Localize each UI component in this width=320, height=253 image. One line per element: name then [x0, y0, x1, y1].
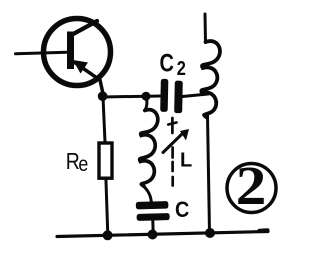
wire tank coil bottom to ground rail — [208, 116, 210, 233]
capacitor C — [136, 201, 170, 221]
node rail-Re — [103, 230, 113, 240]
label C2 — [160, 49, 186, 79]
label Re — [66, 147, 89, 176]
resistor Re — [99, 143, 112, 178]
wire C2 to tank coil tap — [183, 94, 209, 97]
wire emitter node to C2 — [102, 96, 161, 97]
inductor L2 tank coil top lead — [204, 14, 208, 43]
wire C to ground rail — [151, 221, 154, 234]
svg-text:2: 2 — [236, 155, 267, 216]
svg-text:e: e — [78, 153, 88, 177]
transistor Q1 — [16, 19, 111, 96]
wire L coil bottom to C — [144, 186, 152, 202]
node B L-branch junction — [142, 92, 151, 101]
ground rail — [57, 232, 268, 237]
wire node B down to L — [145, 97, 147, 111]
inductor L adjuster arrow — [163, 133, 184, 153]
inductor L2 tank coil — [201, 41, 220, 117]
node rail-tank — [205, 228, 215, 238]
svg-text:C: C — [160, 49, 174, 77]
inductor L coil — [140, 110, 158, 187]
capacitor C2 — [160, 79, 183, 113]
svg-text:C: C — [175, 198, 189, 222]
node rail-C — [148, 230, 158, 240]
node A emitter junction — [98, 91, 108, 101]
figure number 2 — [227, 155, 276, 216]
inductor L dashed core — [168, 118, 176, 186]
svg-text:L: L — [180, 149, 192, 171]
label C — [175, 198, 189, 222]
wire emitter node down to Re — [103, 97, 105, 142]
wire Re to ground rail — [106, 179, 108, 235]
svg-text:2: 2 — [177, 56, 186, 79]
